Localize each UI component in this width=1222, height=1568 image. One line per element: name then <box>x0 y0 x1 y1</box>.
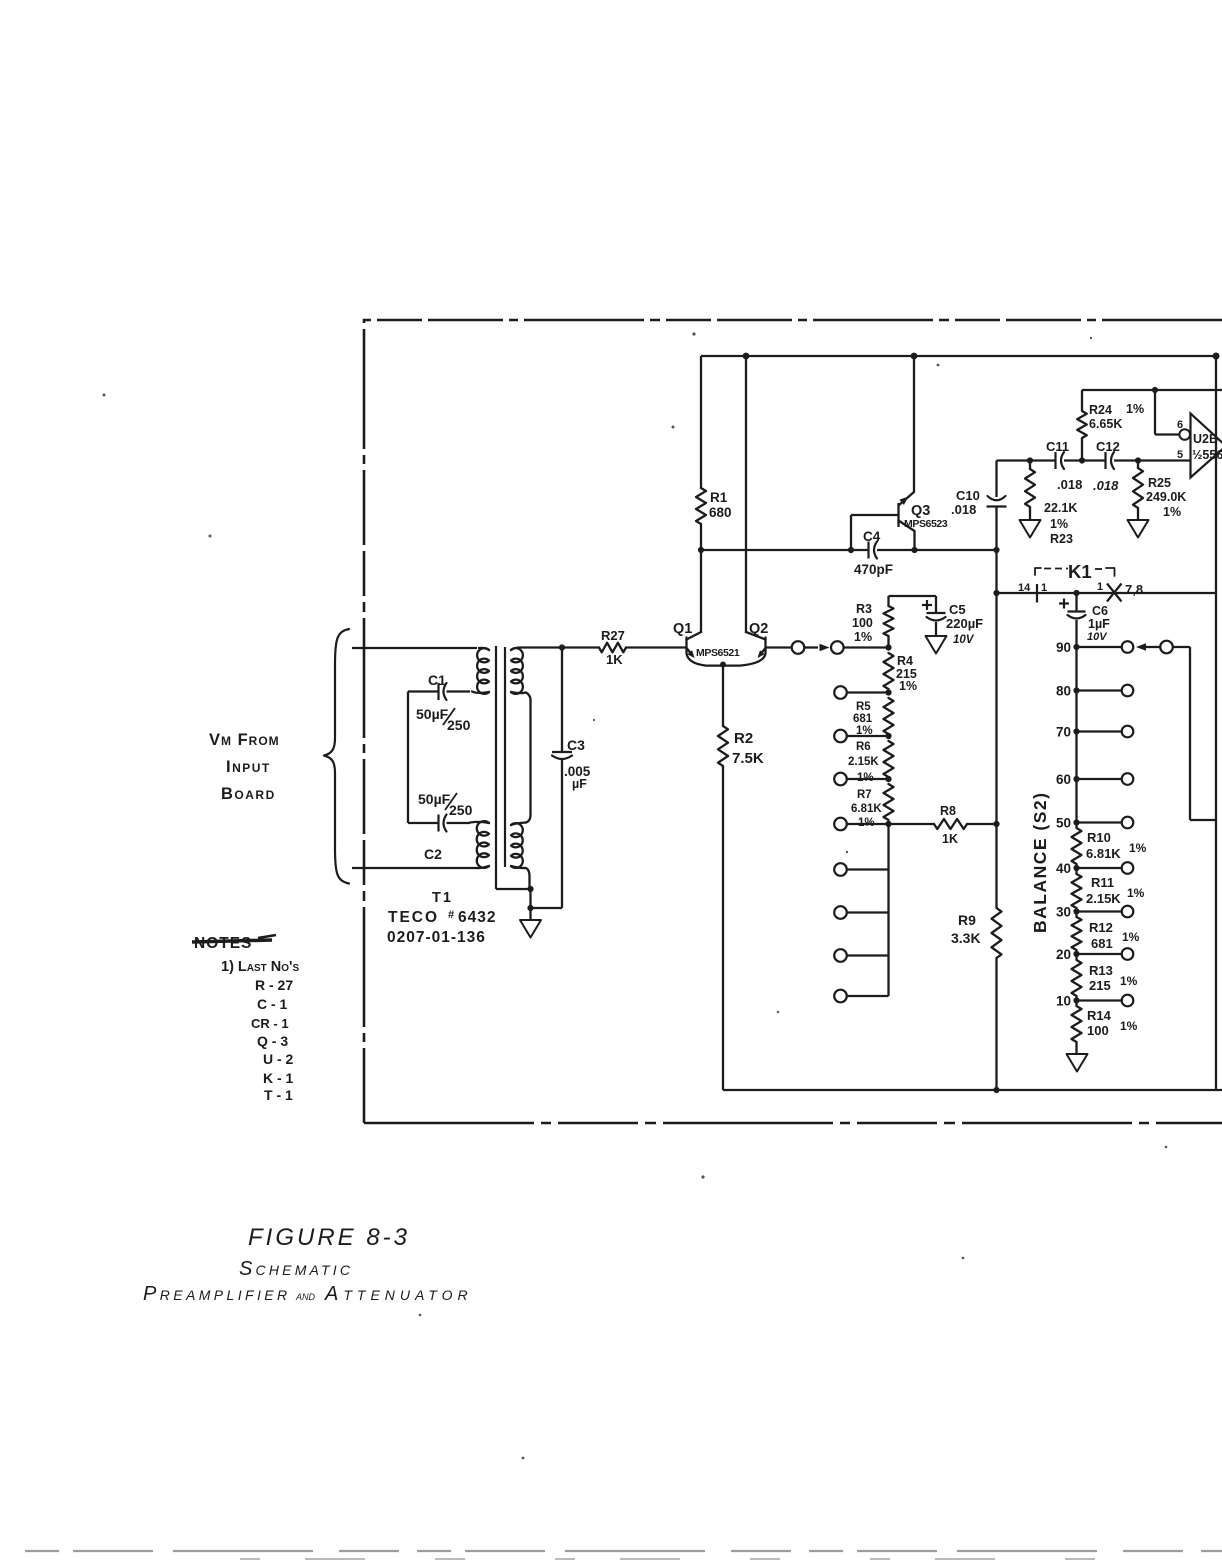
border frame <box>364 320 1222 1123</box>
node K1 wire <box>993 590 999 596</box>
wire to attenuator <box>844 646 889 648</box>
svg-text:C6: C6 <box>1092 604 1108 618</box>
ground C5 <box>926 636 947 654</box>
op-amp U2B 1/2 556 <box>1191 414 1222 478</box>
svg-text:Input: Input <box>226 758 271 776</box>
node tap R7/R8 <box>885 821 891 827</box>
relay contact X 7,8 <box>1107 584 1122 602</box>
svg-text:100: 100 <box>852 616 873 630</box>
resistor R27 1K <box>562 646 599 648</box>
wire right rail <box>1215 356 1217 1090</box>
svg-text:Board: Board <box>221 785 276 803</box>
resistor R3 100 1% <box>884 606 894 636</box>
svg-text:R24: R24 <box>1089 403 1112 417</box>
wire feedback to pin 6 <box>1082 389 1222 391</box>
ground R23 <box>1020 520 1041 538</box>
wire down to K1 net <box>995 550 997 593</box>
node common emitter <box>720 662 726 668</box>
balance ladder vertical <box>1075 647 1077 828</box>
wire input bottom <box>352 867 477 869</box>
svg-text:6.81K: 6.81K <box>1086 846 1121 861</box>
svg-text:680: 680 <box>709 505 732 520</box>
svg-text:U2B: U2B <box>1193 432 1218 446</box>
svg-text:R5: R5 <box>856 701 871 713</box>
svg-text:.018: .018 <box>1093 478 1119 493</box>
svg-text:10: 10 <box>1056 994 1071 1009</box>
svg-text:5: 5 <box>1177 449 1183 461</box>
svg-text:½556: ½556 <box>1192 448 1222 462</box>
node R25 top <box>1135 457 1141 463</box>
resistor R5 681 1% <box>884 698 894 734</box>
svg-text:FIGURE 8-3: FIGURE 8-3 <box>248 1224 410 1251</box>
svg-text:R27: R27 <box>601 628 625 643</box>
wire Q2 base output <box>766 646 792 648</box>
svg-text:Vm From: Vm From <box>209 731 280 749</box>
resistor R24 6.65K 1% <box>1081 438 1083 461</box>
wire secondary top to R27, C3 node <box>521 646 562 648</box>
svg-text:7,8: 7,8 <box>1125 582 1143 597</box>
node secondary bottom <box>527 886 533 892</box>
svg-text:3.3K: 3.3K <box>951 930 981 946</box>
svg-text:50µF: 50µF <box>418 791 451 807</box>
capacitor C6 1uF 10V <box>1075 593 1077 612</box>
svg-text:R8: R8 <box>940 804 956 818</box>
capacitor C5 220uF 10V <box>935 596 937 613</box>
tap 60 <box>1073 776 1079 782</box>
svg-text:NOTES: NOTES <box>194 935 252 952</box>
svg-text:and: and <box>295 1288 316 1303</box>
svg-text:1%: 1% <box>1129 841 1147 855</box>
wire secondary link <box>526 693 531 823</box>
svg-text:1%: 1% <box>1127 886 1145 900</box>
svg-text:6432: 6432 <box>458 909 496 926</box>
svg-text:6.81K: 6.81K <box>851 803 882 815</box>
svg-text:R7: R7 <box>857 789 872 801</box>
pin 6 inverting circle <box>1179 429 1190 440</box>
svg-text:250: 250 <box>447 717 471 733</box>
svg-text:Q3: Q3 <box>911 503 930 519</box>
svg-text:60: 60 <box>1056 772 1071 787</box>
connector circle <box>831 641 844 654</box>
svg-text:Q1: Q1 <box>673 621 692 637</box>
svg-text:7.5K: 7.5K <box>732 750 764 767</box>
tap 40 <box>1073 865 1079 871</box>
tap 20 <box>1073 951 1079 957</box>
node tap <box>885 776 891 782</box>
transistor Q3 MPS6523 <box>913 356 915 492</box>
svg-text:681: 681 <box>853 713 873 725</box>
svg-text:90: 90 <box>1056 640 1071 655</box>
svg-text:Attenuator: Attenuator <box>324 1283 473 1305</box>
svg-text:.018: .018 <box>951 502 976 517</box>
wire K1 net <box>997 592 1217 594</box>
resistor R25 249.0K 1% <box>1137 461 1139 469</box>
node R3/R4 junction <box>885 644 891 650</box>
svg-text:CR - 1: CR - 1 <box>251 1016 289 1031</box>
svg-text:R10: R10 <box>1087 830 1111 845</box>
bottom scan noise <box>25 1550 1222 1552</box>
svg-text:1%: 1% <box>899 679 917 693</box>
transformer T1 secondary top coil <box>511 648 523 694</box>
svg-text:.018: .018 <box>1057 477 1082 492</box>
svg-text:R9: R9 <box>958 912 976 928</box>
tap wire and circle <box>847 954 889 956</box>
wire <box>805 646 819 648</box>
resistor R23 22.1K 1% <box>1029 461 1031 470</box>
svg-text:1%: 1% <box>1163 505 1181 519</box>
svg-text:K1: K1 <box>1068 561 1092 582</box>
tap 90 <box>1073 644 1079 650</box>
svg-text:R3: R3 <box>856 602 872 616</box>
svg-text:R13: R13 <box>1089 963 1113 978</box>
node C10/C4 net <box>993 547 999 553</box>
resistor R1 680 <box>700 356 702 488</box>
svg-text:249.0K: 249.0K <box>1146 490 1186 504</box>
svg-text:MPS6523: MPS6523 <box>904 518 948 530</box>
svg-text:µF: µF <box>572 777 587 791</box>
svg-text:10V: 10V <box>953 634 975 646</box>
tap wire and circle <box>847 868 889 870</box>
node C6 <box>1073 590 1079 596</box>
tap wire and circle <box>847 911 889 913</box>
svg-text:70: 70 <box>1056 725 1071 740</box>
svg-text:U - 2: U - 2 <box>263 1051 294 1067</box>
svg-text:R12: R12 <box>1089 920 1113 935</box>
relay K1 dashed outline <box>1035 568 1041 575</box>
transistor Q1 Q2 MPS6521 dual package <box>687 632 702 640</box>
tap wire and circle <box>847 735 889 737</box>
connector circle <box>792 641 805 654</box>
svg-text:40: 40 <box>1056 861 1071 876</box>
transformer T1 primary top coil <box>477 648 489 694</box>
node R1 bottom / C4 wire <box>698 547 704 553</box>
svg-text:80: 80 <box>1056 684 1071 699</box>
svg-text:R23: R23 <box>1050 532 1073 546</box>
node top-right corner <box>1213 353 1220 360</box>
node tap <box>885 733 891 739</box>
resistor R6 2.15K 1% <box>884 741 894 777</box>
node bottom rail <box>993 1087 999 1093</box>
svg-text:R25: R25 <box>1148 476 1171 490</box>
resistor R14 100 1% <box>1072 1006 1082 1042</box>
svg-text:681: 681 <box>1091 936 1113 951</box>
capacitor C4 470pF <box>867 542 869 559</box>
svg-text:R2: R2 <box>734 730 753 747</box>
svg-text:1: 1 <box>1041 582 1047 594</box>
svg-text:BALANCE (S2): BALANCE (S2) <box>1030 792 1050 933</box>
svg-text:14: 14 <box>1018 582 1031 594</box>
svg-text:1%: 1% <box>1122 930 1140 944</box>
svg-text:220µF: 220µF <box>946 616 983 631</box>
svg-text:6.65K: 6.65K <box>1089 417 1122 431</box>
svg-text:C3: C3 <box>567 737 585 753</box>
tap 80 <box>1073 687 1079 693</box>
wire 90 tap to right rail <box>1136 643 1146 651</box>
svg-text:1%: 1% <box>1120 1019 1138 1033</box>
transformer core <box>495 646 497 889</box>
arrow right <box>820 644 830 651</box>
svg-text:1µF: 1µF <box>1088 617 1110 631</box>
wire input top <box>352 647 477 649</box>
svg-text:10V: 10V <box>1087 631 1108 643</box>
svg-text:C - 1: C - 1 <box>257 996 288 1012</box>
resistor R9 3.3K <box>992 908 1002 958</box>
svg-text:50µF: 50µF <box>416 706 449 722</box>
capacitor C10 .018 <box>995 461 997 498</box>
svg-text:R - 27: R - 27 <box>255 977 293 993</box>
wire down <box>995 593 997 908</box>
svg-text:100: 100 <box>1087 1023 1109 1038</box>
svg-text:T - 1: T - 1 <box>264 1087 293 1103</box>
svg-text:1%: 1% <box>1120 974 1138 988</box>
svg-text:1K: 1K <box>942 832 958 846</box>
svg-text:C12: C12 <box>1096 439 1120 454</box>
svg-text:20: 20 <box>1056 947 1071 962</box>
wire to ground <box>529 889 531 920</box>
svg-text:R1: R1 <box>710 490 728 505</box>
svg-text:6: 6 <box>1177 419 1183 431</box>
svg-text:2.15K: 2.15K <box>848 756 879 768</box>
resistor R12 681 1% <box>1072 917 1082 950</box>
svg-text:30: 30 <box>1056 905 1071 920</box>
tap 10 <box>1073 997 1079 1003</box>
resistor R11 2.15K 1% <box>1072 874 1082 908</box>
svg-text:TECO: TECO <box>388 909 439 926</box>
resistor R4 215 1% <box>884 653 894 689</box>
capacitor C12 .018 <box>1104 452 1106 469</box>
tap wire bottom and circle <box>847 995 889 997</box>
svg-text:1K: 1K <box>606 652 623 667</box>
wire ladder lower <box>887 824 889 996</box>
svg-text:2.15K: 2.15K <box>1086 891 1121 906</box>
svg-text:R11: R11 <box>1091 875 1114 890</box>
svg-text:MPS6521: MPS6521 <box>696 647 740 659</box>
svg-text:R6: R6 <box>856 741 871 753</box>
svg-text:215: 215 <box>1089 978 1111 993</box>
node R8 junction <box>993 821 999 827</box>
wire Q2 collector to rail <box>743 353 750 360</box>
resistor R10 6.81K 1% <box>1072 828 1082 864</box>
resistor R7 6.81K 1% <box>884 784 894 820</box>
resistor R2 7.5K <box>722 665 724 727</box>
svg-text:C1: C1 <box>428 672 446 688</box>
svg-text:C11: C11 <box>1046 439 1069 454</box>
resistor R13 215 1% <box>1072 960 1082 996</box>
svg-text:Preamplifier: Preamplifier <box>143 1283 291 1305</box>
brace Vm from input board <box>324 629 349 884</box>
relay contact 14/1 <box>1036 584 1038 603</box>
svg-text:1%: 1% <box>1050 517 1068 531</box>
transformer T1 secondary bottom coil <box>511 823 526 826</box>
svg-text:R4: R4 <box>897 654 913 668</box>
svg-text:0207-01-136: 0207-01-136 <box>387 929 486 946</box>
svg-text:1%: 1% <box>854 630 872 644</box>
svg-text:K - 1: K - 1 <box>263 1070 294 1086</box>
svg-text:470pF: 470pF <box>854 562 893 577</box>
svg-text:50: 50 <box>1056 816 1071 831</box>
scan specks <box>692 332 695 335</box>
node tap <box>885 689 891 695</box>
svg-text:Schematic: Schematic <box>239 1258 353 1280</box>
svg-text:R14: R14 <box>1087 1008 1112 1023</box>
svg-text:1: 1 <box>1097 581 1103 593</box>
wire U2B input net <box>997 459 1056 461</box>
svg-text:C5: C5 <box>949 602 966 617</box>
capacitor C11 .018 <box>1054 452 1056 469</box>
svg-text:#: # <box>448 909 454 921</box>
svg-text:1%: 1% <box>1126 402 1144 416</box>
wire bottom rail <box>723 1089 1222 1091</box>
wire C1-C2 link <box>407 692 409 824</box>
wire top rail (output bus) <box>701 355 1216 357</box>
node R23 top <box>1027 457 1033 463</box>
transformer T1 primary bottom coil <box>477 821 489 868</box>
svg-text:C10: C10 <box>956 488 980 503</box>
capacitor C1 50uF/250 <box>447 690 471 692</box>
svg-text:T1: T1 <box>432 890 453 906</box>
capacitor C3 .005uF <box>561 648 563 753</box>
wire C4 net <box>701 549 869 551</box>
tap wire and circle <box>847 778 889 780</box>
tap 70 <box>1073 728 1079 734</box>
tap 30 <box>1073 908 1079 914</box>
ground R14 <box>1075 1042 1077 1054</box>
svg-text:Q - 3: Q - 3 <box>257 1033 288 1049</box>
svg-text:C4: C4 <box>863 529 881 544</box>
tap wire and circle <box>847 823 889 825</box>
svg-text:22.1K: 22.1K <box>1044 501 1077 515</box>
tap wire and circle <box>847 691 889 693</box>
resistor R8 1K <box>889 823 935 825</box>
svg-text:1) Last No's: 1) Last No's <box>221 959 300 975</box>
node R24 bottom <box>1079 457 1085 463</box>
tap 50 <box>1073 819 1079 825</box>
ground T1 <box>520 920 541 938</box>
svg-text:C2: C2 <box>424 846 442 862</box>
svg-text:250: 250 <box>449 802 473 818</box>
capacitor C2 50uF/250 <box>408 822 438 824</box>
svg-text:Q2: Q2 <box>749 621 768 637</box>
ground R25 <box>1128 520 1149 538</box>
